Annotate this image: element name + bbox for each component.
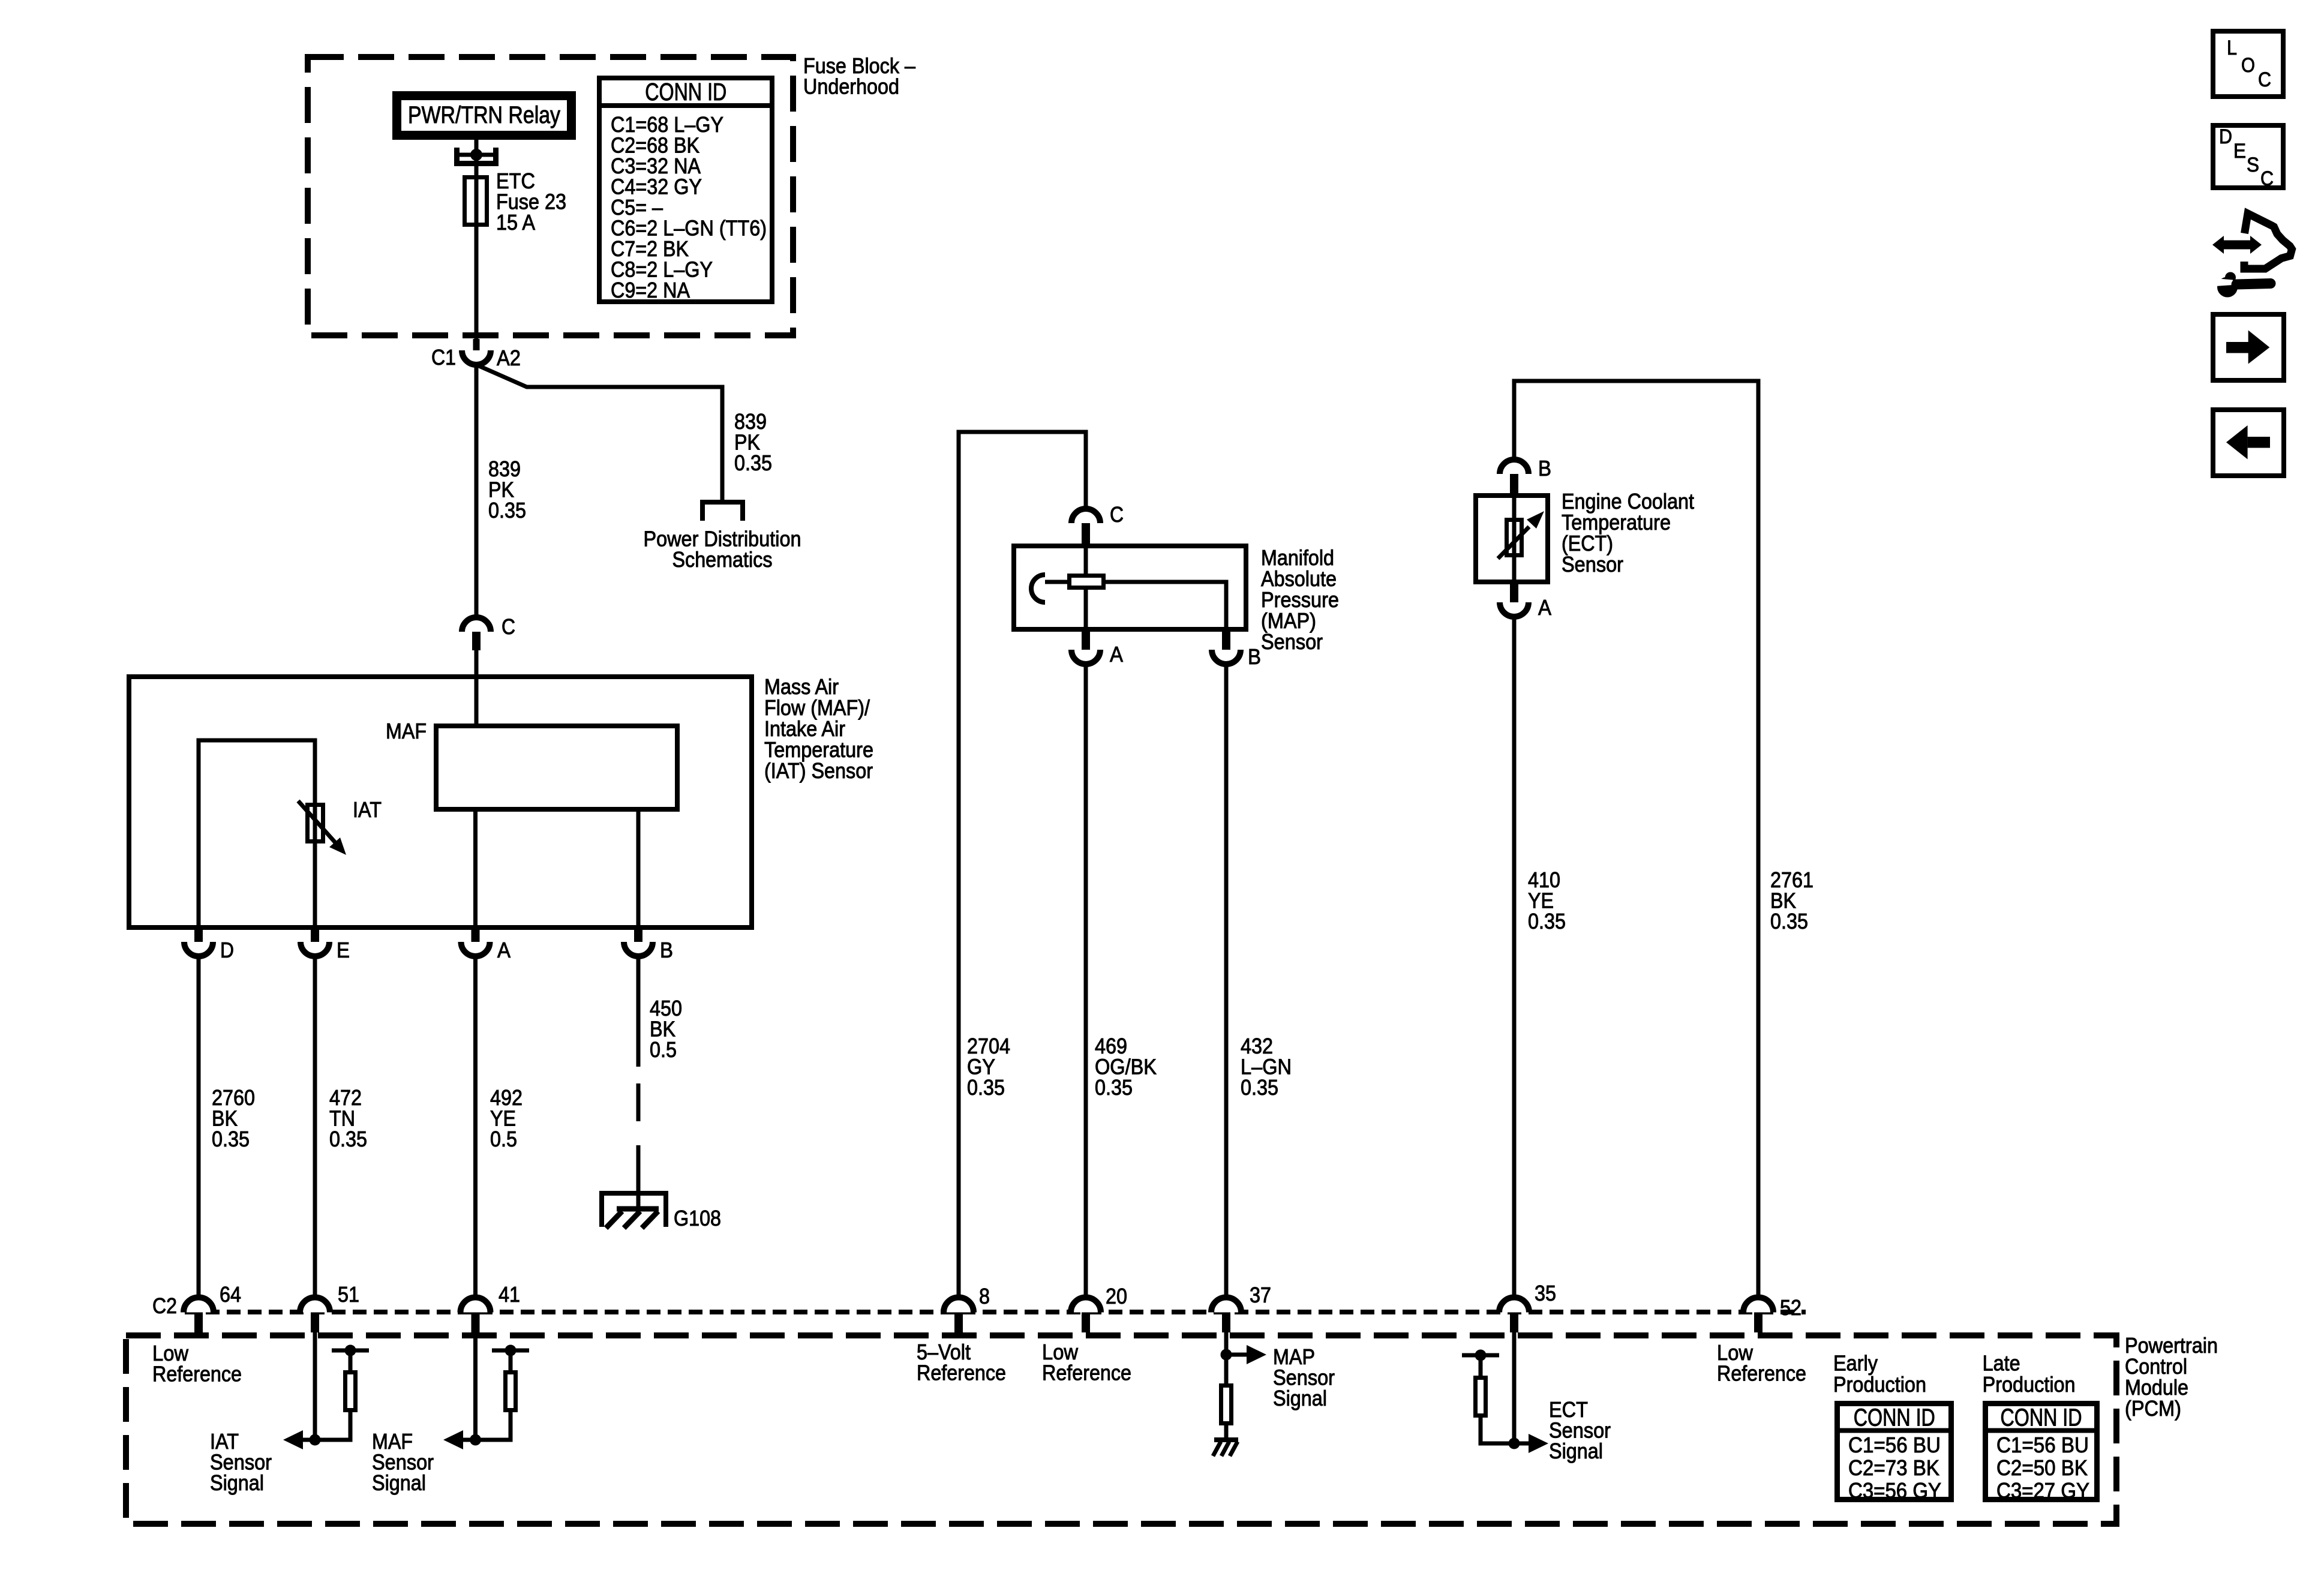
svg-text:0.35: 0.35 xyxy=(1528,909,1566,933)
svg-text:D: D xyxy=(2219,125,2232,148)
svg-text:Sensor: Sensor xyxy=(1261,629,1323,654)
svg-text:0.35: 0.35 xyxy=(1241,1075,1278,1100)
svg-text:CONN ID: CONN ID xyxy=(2001,1404,2082,1431)
svg-text:Sensor: Sensor xyxy=(1562,552,1623,577)
svg-text:0.35: 0.35 xyxy=(488,498,526,523)
svg-text:A: A xyxy=(1538,595,1551,620)
svg-text:Signal: Signal xyxy=(1549,1439,1603,1463)
svg-text:O: O xyxy=(2241,54,2255,77)
svg-text:D: D xyxy=(220,938,234,962)
svg-text:Reference: Reference xyxy=(152,1362,242,1386)
svg-text:C1=56 BU: C1=56 BU xyxy=(1848,1433,1941,1457)
svg-text:A: A xyxy=(497,938,511,962)
svg-text:41: 41 xyxy=(499,1282,520,1307)
svg-text:MAF: MAF xyxy=(386,719,427,743)
svg-text:C3=56 GY: C3=56 GY xyxy=(1848,1478,1941,1503)
svg-text:(IAT) Sensor: (IAT) Sensor xyxy=(764,758,873,783)
svg-text:C1=56 BU: C1=56 BU xyxy=(1996,1433,2089,1457)
svg-text:C1: C1 xyxy=(431,345,456,370)
svg-text:CONN ID: CONN ID xyxy=(645,78,726,106)
svg-text:E: E xyxy=(337,938,350,962)
svg-text:8: 8 xyxy=(979,1284,990,1308)
svg-text:PWR/TRN Relay: PWR/TRN Relay xyxy=(408,102,560,128)
svg-text:L: L xyxy=(2227,37,2237,59)
svg-text:B: B xyxy=(660,938,673,962)
svg-text:C3=27 GY: C3=27 GY xyxy=(1996,1478,2089,1503)
svg-text:Reference: Reference xyxy=(1717,1361,1806,1386)
svg-text:B: B xyxy=(1538,456,1551,481)
svg-text:15 A: 15 A xyxy=(496,210,535,235)
svg-text:S: S xyxy=(2247,154,2259,176)
svg-text:Signal: Signal xyxy=(372,1470,426,1495)
svg-text:Signal: Signal xyxy=(210,1470,264,1495)
svg-text:Production: Production xyxy=(1983,1372,2076,1397)
svg-text:Underhood: Underhood xyxy=(803,74,899,99)
svg-text:51: 51 xyxy=(338,1282,359,1307)
svg-text:C: C xyxy=(1110,502,1124,527)
svg-text:A: A xyxy=(1110,642,1123,667)
svg-text:Reference: Reference xyxy=(917,1361,1006,1385)
svg-text:35: 35 xyxy=(1535,1281,1556,1305)
svg-text:C9=2 NA: C9=2 NA xyxy=(611,278,690,302)
svg-text:0.5: 0.5 xyxy=(650,1037,677,1062)
svg-text:52: 52 xyxy=(1780,1295,1801,1320)
svg-text:Production: Production xyxy=(1833,1372,1926,1397)
svg-text:0.35: 0.35 xyxy=(967,1075,1005,1100)
svg-text:C: C xyxy=(2258,68,2271,91)
svg-text:0.35: 0.35 xyxy=(1095,1075,1133,1100)
svg-text:Signal: Signal xyxy=(1273,1386,1327,1410)
svg-text:37: 37 xyxy=(1250,1283,1271,1307)
svg-text:G108: G108 xyxy=(674,1206,721,1230)
svg-text:20: 20 xyxy=(1106,1284,1127,1308)
svg-text:B: B xyxy=(1248,644,1261,669)
svg-text:C: C xyxy=(2260,167,2274,190)
svg-text:0.35: 0.35 xyxy=(734,451,772,475)
svg-text:C: C xyxy=(502,614,515,639)
svg-text:A2: A2 xyxy=(497,346,521,370)
svg-text:64: 64 xyxy=(220,1282,241,1307)
svg-text:0.35: 0.35 xyxy=(212,1127,250,1151)
svg-text:0.35: 0.35 xyxy=(329,1127,367,1151)
svg-text:CONN ID: CONN ID xyxy=(1854,1404,1935,1431)
svg-text:(PCM): (PCM) xyxy=(2125,1396,2181,1421)
svg-text:C2=50 BK: C2=50 BK xyxy=(1996,1455,2088,1480)
svg-text:IAT: IAT xyxy=(353,797,382,822)
svg-text:Schematics: Schematics xyxy=(672,547,773,572)
svg-text:0.5: 0.5 xyxy=(490,1127,517,1151)
svg-text:Reference: Reference xyxy=(1042,1361,1131,1385)
svg-text:C2=73 BK: C2=73 BK xyxy=(1848,1455,1939,1480)
svg-text:0.35: 0.35 xyxy=(1770,909,1808,933)
svg-text:C2: C2 xyxy=(152,1293,177,1318)
svg-text:E: E xyxy=(2233,140,2246,163)
